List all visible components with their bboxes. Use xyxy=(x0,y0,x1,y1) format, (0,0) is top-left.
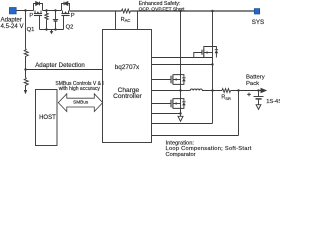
SMBus double arrow xyxy=(58,94,102,112)
svg-text:1S-4S: 1S-4S xyxy=(266,99,280,105)
node: BATFET source xyxy=(211,63,213,65)
svg-text:P: P xyxy=(29,13,33,19)
node: divider midpoint xyxy=(24,68,26,70)
wire: PGND pin from controller xyxy=(152,113,181,115)
battery plus sign xyxy=(247,93,251,97)
node: battery branch xyxy=(257,89,259,91)
svg-text:HOST: HOST xyxy=(39,115,56,121)
svg-text:RAC: RAC xyxy=(121,17,131,23)
node: snubber tap right xyxy=(54,9,56,11)
wire: adapter to Q1 xyxy=(17,10,34,12)
wire: BATFET source pin from controller xyxy=(152,57,213,59)
wire: common-source rail xyxy=(40,16,64,30)
wire: phase to inductor xyxy=(181,90,191,92)
svg-text:Adapter Detection: Adapter Detection xyxy=(35,62,85,69)
svg-text:RSR: RSR xyxy=(221,95,231,101)
wire: R_SR to battery xyxy=(231,90,261,92)
wire: ACN sense xyxy=(137,11,139,30)
wire: BATFET gate route xyxy=(194,53,202,58)
svg-text:SYS: SYS xyxy=(252,19,264,26)
wire: low-side source to ground xyxy=(180,110,182,114)
wire: R_AC to SYS xyxy=(130,10,254,12)
node: SYS branch xyxy=(211,10,213,12)
transistor Q1 (P-FET with body diode) xyxy=(34,2,43,16)
ground (snubber, filled arrow) xyxy=(51,30,53,32)
node: SRN junction xyxy=(237,89,239,91)
svg-text:Q1: Q1 xyxy=(27,27,35,33)
transistor (BATFET, NMOS w/ body diode) xyxy=(202,47,218,58)
node: rail junction left xyxy=(45,28,47,30)
svg-text:Controller: Controller xyxy=(113,93,142,100)
transistor Q2 (P-FET with body diode, mirrored) xyxy=(61,2,69,16)
svg-text:P: P xyxy=(71,13,75,19)
wire: Q1 to Q2 xyxy=(43,10,62,12)
ground (battery, open arrow) xyxy=(256,105,261,110)
svg-text:bq2707x: bq2707x xyxy=(115,64,140,71)
wire: SRN sense drop xyxy=(238,91,240,136)
svg-text:Q2: Q2 xyxy=(66,24,74,30)
wire: ACP sense xyxy=(115,11,117,30)
wire: low-side gate from controller xyxy=(152,103,171,105)
HOST block xyxy=(36,90,58,146)
svg-text:OCP, OVP,FET Short: OCP, OVP,FET Short xyxy=(139,6,186,12)
adapter input terminal xyxy=(9,8,16,14)
ground (divider, filled arrow) xyxy=(24,90,27,94)
arrow to battery pack xyxy=(261,88,268,93)
node: buck input branch xyxy=(179,10,181,12)
svg-text:Pack: Pack xyxy=(246,81,259,87)
resistor (gate snubber) xyxy=(45,11,48,30)
battery B1 xyxy=(254,91,264,105)
node: phase junction xyxy=(179,89,181,91)
wire: divider drop xyxy=(25,11,27,49)
node: adapter detection tap xyxy=(24,9,26,11)
wire: inductor to R_SR xyxy=(202,90,222,92)
wire: SRP routed to controller xyxy=(152,123,213,125)
wire: adapter detection to controller xyxy=(26,69,103,71)
resistor (divider lower) xyxy=(24,70,28,91)
svg-text:Comparator: Comparator xyxy=(166,152,196,158)
transistor (high-side FET) xyxy=(171,75,186,85)
inductor L1 xyxy=(190,89,202,91)
svg-text:SMBus: SMBus xyxy=(73,99,89,104)
ground (power, open triangle) xyxy=(180,114,182,117)
wire: Q2 to R_AC xyxy=(70,10,122,12)
capacitor (snubber) xyxy=(53,11,58,30)
node: snubber tap left xyxy=(45,9,47,11)
resistor R_AC (series sense) xyxy=(122,9,131,13)
svg-text:Enhanced Safety:: Enhanced Safety: xyxy=(139,1,181,7)
transistor (low-side FET) xyxy=(171,99,186,109)
node: rail junction right xyxy=(54,28,56,30)
svg-text:4.5-24 V: 4.5-24 V xyxy=(1,23,25,30)
node: SRP junction xyxy=(211,89,213,91)
wire: high-side gate from controller xyxy=(152,79,171,81)
svg-text:Battery: Battery xyxy=(246,75,265,81)
wire: buck input drop through FETs xyxy=(180,11,182,114)
wire: phase pin from controller xyxy=(152,90,181,92)
SYS output terminal xyxy=(254,9,259,14)
svg-text:with high accuracy: with high accuracy xyxy=(59,86,101,92)
node: power ground junction xyxy=(179,112,181,114)
wire: SRN routed to controller xyxy=(152,135,239,137)
wire: BATFET source sense from controller xyxy=(152,64,213,66)
wire: top rail through BATFET to sense rail xyxy=(212,11,214,124)
resistor R_SR (current sense) xyxy=(222,89,231,93)
op-amp U1: bq2707x charge controller block xyxy=(103,30,152,143)
resistor (divider upper) xyxy=(24,49,28,70)
